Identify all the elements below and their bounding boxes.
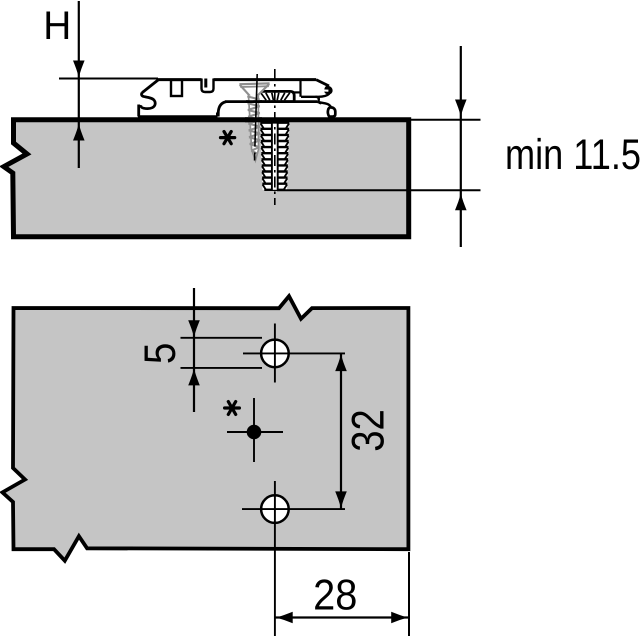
svg-text:5: 5 bbox=[136, 343, 185, 365]
svg-text:28: 28 bbox=[313, 571, 357, 619]
svg-text:H: H bbox=[43, 4, 71, 48]
svg-text:min 11.5: min 11.5 bbox=[505, 131, 640, 179]
svg-text:32: 32 bbox=[343, 409, 394, 452]
